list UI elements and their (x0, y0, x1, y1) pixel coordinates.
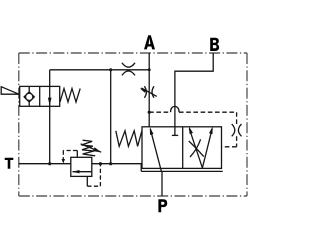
relief drain line (dashed) (87, 164, 100, 187)
relief pilot stub (top) (76, 151, 78, 158)
right position arrowheads (189, 126, 193, 134)
variable throttle on A line (140, 86, 157, 98)
main flow-control valve body (142, 127, 222, 169)
junction node branch / P riser (109, 68, 112, 71)
return spring of lever valve (60, 89, 80, 103)
wire: branch from A line to lever valve (y=69.8) (50, 69, 150, 71)
junction node pilot tap on A line (148, 111, 151, 114)
main valve position divider (182, 127, 184, 169)
check position: ball circle (26, 93, 33, 100)
lever-operated 2/2 poppet valve body (20, 86, 60, 106)
restrictor on pilot line (232, 124, 242, 136)
pilot arrow onto T line (62, 159, 65, 164)
junction node drain / P node line (99, 162, 102, 165)
relief pilot line (dashed) to T line (63, 151, 77, 161)
main valve spring (left) (116, 131, 142, 147)
port label A (144, 35, 155, 49)
wire: lever valve top drop (49, 70, 51, 87)
lever actuator (1, 87, 19, 95)
wire: P port drop to border (161, 171, 163, 196)
wire: T line (19, 163, 71, 165)
right position: V flow paths (189, 129, 202, 168)
throttle on right position path (189, 139, 204, 157)
valve position divider (39, 86, 41, 106)
port label P (158, 199, 167, 212)
relief adjustment arrow (81, 144, 102, 152)
port label B (210, 38, 219, 51)
wire hop (crossing) over B drop (171, 106, 179, 112)
wire: A port vertical line (148, 53, 150, 127)
junction node at A-line / branch (148, 68, 151, 71)
check position stubs (28, 86, 30, 92)
wire: lever valve bottom to T line (49, 106, 51, 163)
relief valve flow arrow (73, 171, 92, 173)
relief drain stub (bottom) (86, 176, 88, 186)
left position: blocked B port (174, 127, 176, 136)
fixed orifice on branch line (122, 63, 135, 76)
pilot-operated relief valve body (71, 157, 92, 176)
junction node P riser / P node line (109, 162, 112, 165)
junction node lever valve / T line (48, 162, 51, 165)
enclosure border (dash-dot) (19, 53, 247, 196)
open position flow arrow (49, 86, 51, 106)
wire: P sense riser x=110.7 (110, 70, 112, 164)
wire: relief valve outlet to P node (92, 164, 141, 172)
port label T (5, 158, 14, 169)
left position: P to A arrow (150, 129, 161, 172)
wire: P rail under main valve (141, 170, 223, 172)
check (closed) position: seat diamond (24, 92, 34, 102)
adjustable relief spring (81, 140, 95, 156)
wire: B port line down and left into main valve (175, 53, 213, 127)
pilot line (dashed) from A line to compensator right side (149, 112, 236, 147)
